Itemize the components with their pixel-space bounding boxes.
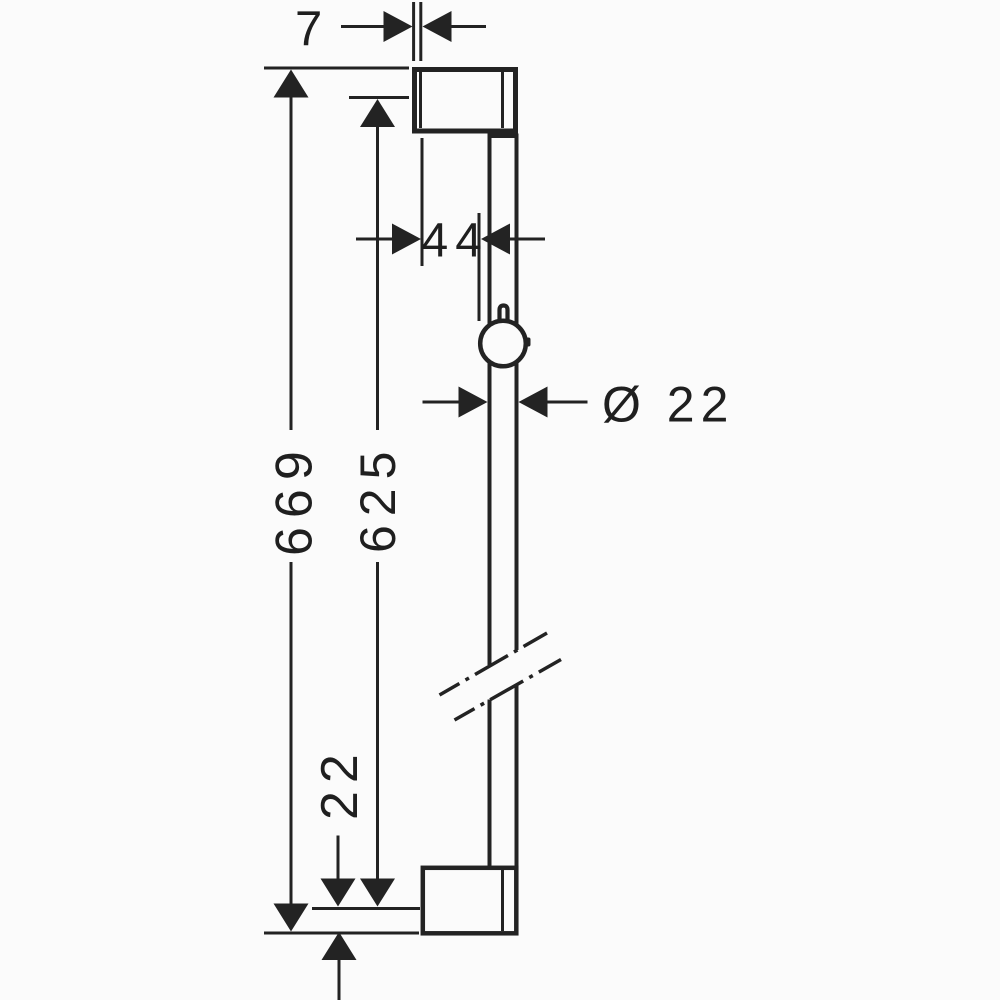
arrow left toward plate xyxy=(423,11,452,42)
bar left edge (upper part) xyxy=(488,134,492,666)
floor reference arrow xyxy=(322,932,357,960)
extension line: wall plate inner face (7 dim, right) xyxy=(419,2,422,61)
svg-text:44: 44 xyxy=(422,215,489,268)
dimension line 44 (right segment) xyxy=(509,238,545,241)
arrow right toward bar left edge xyxy=(459,387,488,418)
bar left edge (lower part) xyxy=(488,700,492,867)
dimension 669: lower line xyxy=(290,562,293,905)
dimension 625: bottom arrow xyxy=(360,879,395,907)
arrow right toward plate xyxy=(384,11,413,42)
svg-text:625: 625 xyxy=(350,443,406,553)
dimension 625: upper line xyxy=(376,125,379,430)
bottom wall bracket: inner cap line xyxy=(501,870,504,931)
svg-text:Ø 22: Ø 22 xyxy=(602,377,734,433)
slider circle xyxy=(480,321,526,367)
dimension 44: extension line from wall face xyxy=(421,138,424,266)
top wall bracket: outer body xyxy=(415,70,516,132)
svg-text:22: 22 xyxy=(311,746,369,820)
dimension 669: upper line xyxy=(290,96,293,430)
top wall bracket: inner cap line xyxy=(501,72,504,128)
dimension 669: bottom arrow xyxy=(274,904,309,932)
extension line: top of rail assembly (669 top) xyxy=(264,67,409,70)
break mark lower diagonal xyxy=(455,660,562,721)
dimension line 44 (left segment) xyxy=(356,238,393,241)
break mark upper diagonal xyxy=(440,633,548,695)
dimension 625: top arrow xyxy=(360,99,395,127)
svg-text:7: 7 xyxy=(295,2,322,56)
dimension 669: top arrow xyxy=(274,70,309,98)
bottom wall bracket: outer body xyxy=(423,868,517,934)
dimension line 7 (right segment) xyxy=(451,25,486,28)
arrow left toward bar right edge xyxy=(519,387,548,418)
dimension 22: bottom arrow xyxy=(321,879,356,907)
dimension line 7 (left segment) xyxy=(341,25,384,28)
floor reference line xyxy=(338,958,341,1000)
dimension 22: line xyxy=(337,836,340,881)
svg-text:669: 669 xyxy=(266,442,324,556)
extension line: bottom of rail assembly xyxy=(264,932,419,935)
top bracket bar shoulder xyxy=(488,134,519,139)
slider knob bump xyxy=(526,338,531,347)
dimension line diameter 22 (right segment) xyxy=(547,401,588,404)
dimension line diameter 22 (left segment) xyxy=(423,401,460,404)
arrow left toward slider tangent xyxy=(481,224,510,255)
bar right edge (lower part) xyxy=(515,684,519,866)
dimension 44: extension line at slider tangent xyxy=(478,213,481,321)
extension line: bottom of bar xyxy=(312,907,420,910)
extension line: top of bar (625 top) xyxy=(349,96,409,99)
arrow right toward wall face xyxy=(392,224,421,255)
top wall bracket: wall plate line xyxy=(419,72,422,128)
extension line: wall plate outer face (7 dim, left) xyxy=(412,2,415,61)
bar right edge (upper part) xyxy=(515,134,519,651)
dimension 625: lower line xyxy=(376,562,379,880)
slider pin xyxy=(500,306,508,321)
